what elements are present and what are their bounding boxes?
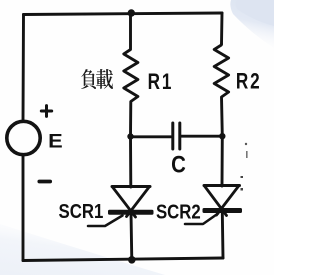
node cap-right junction xyxy=(219,133,225,139)
svg-text:R1: R1 xyxy=(148,70,174,95)
wire bottom xyxy=(23,258,223,261)
wire left upper xyxy=(22,15,25,122)
SCR1 thyristor xyxy=(112,187,150,218)
wire SCR2-to-bottom xyxy=(221,212,225,258)
SCR2 cathode bar xyxy=(203,208,243,213)
plus sign xyxy=(41,106,51,117)
node bottom junction xyxy=(128,256,136,264)
svg-text:SCR2: SCR2 xyxy=(156,200,201,223)
resistor R2 xyxy=(214,44,228,136)
capacitor C plates xyxy=(173,123,180,149)
stray scan mark 1 xyxy=(245,143,247,145)
SCR1 cathode bar xyxy=(108,210,154,215)
svg-text:E: E xyxy=(48,131,63,152)
voltage source E xyxy=(7,121,40,154)
svg-text:R2: R2 xyxy=(236,69,262,94)
wire cap right xyxy=(181,135,222,138)
wire R2-to-SCR2 xyxy=(221,136,224,186)
wire left lower xyxy=(22,156,25,261)
page corner blue top-right xyxy=(230,0,274,48)
label 負載 (load) xyxy=(81,69,113,89)
stray scan mark 3 xyxy=(241,176,244,178)
SCR2 thyristor xyxy=(204,186,240,216)
stray scan mark 2 xyxy=(246,151,248,158)
SCR1 gate xyxy=(88,216,123,227)
wire right upper xyxy=(220,13,223,44)
wire SCR1-to-bottom xyxy=(130,213,134,260)
svg-text:SCR1: SCR1 xyxy=(59,199,104,222)
wire R1-to-SCR1 xyxy=(129,136,132,187)
minus sign xyxy=(39,180,50,184)
svg-text:C: C xyxy=(171,151,186,178)
node cap-left junction xyxy=(127,133,133,139)
wire cap left xyxy=(131,135,172,138)
page corner blue bottom-left xyxy=(0,224,165,275)
stray scan mark 4 xyxy=(241,188,244,191)
resistor R1 xyxy=(124,15,138,136)
SCR2 gate xyxy=(185,214,218,225)
node top junction xyxy=(128,9,135,16)
wire top xyxy=(24,13,223,15)
